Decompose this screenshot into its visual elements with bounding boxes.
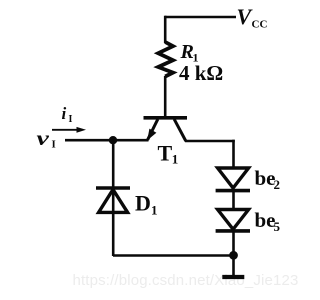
transistor T1 collector leg <box>174 119 186 141</box>
svg-text:1: 1 <box>151 203 158 218</box>
wire input horizontal <box>65 139 149 142</box>
diode D1 triangle <box>99 190 128 213</box>
diode be5 cathode bar <box>216 229 250 233</box>
current arrow iI <box>52 129 79 131</box>
wire bottom horizontal <box>113 254 234 257</box>
svg-text:T: T <box>158 140 173 165</box>
wire be2 to be5 <box>232 190 235 210</box>
wire VCC top horizontal <box>165 16 236 19</box>
svg-text:https://blog.csdn.net/Xiao_Jie: https://blog.csdn.net/Xiao_Jie123 <box>73 272 299 289</box>
transistor T1 emitter arrowhead <box>147 129 156 141</box>
transistor T1 base bar <box>144 116 188 120</box>
resistor R1 zigzag <box>158 42 173 77</box>
svg-text:2: 2 <box>274 177 281 192</box>
svg-text:D: D <box>135 190 151 215</box>
svg-text:i: i <box>62 104 67 123</box>
svg-text:be: be <box>255 166 276 190</box>
ground bar <box>222 275 244 279</box>
transistor T1 emitter leg <box>148 119 158 140</box>
diode D1 cathode bar <box>96 186 130 190</box>
wire node down to D1 <box>112 140 115 256</box>
svg-text:CC: CC <box>252 19 268 31</box>
wire R1 bottom to T1 base bar <box>164 76 167 118</box>
wire right vertical down to be2 <box>232 140 235 168</box>
node bottom junction dot <box>229 251 238 260</box>
wire VCC corner down to R1 top <box>164 16 167 43</box>
node input junction dot <box>109 136 117 144</box>
svg-text:1: 1 <box>172 152 179 167</box>
svg-text:I: I <box>69 114 73 125</box>
diode be5 triangle <box>218 210 249 230</box>
diode be2 cathode bar <box>216 189 250 193</box>
wire be5 down to ground <box>232 231 235 277</box>
svg-text:5: 5 <box>274 219 281 234</box>
wire collector to right <box>185 140 235 143</box>
diode be2 triangle <box>218 168 249 188</box>
svg-text:I: I <box>52 139 56 151</box>
svg-text:be: be <box>255 208 276 232</box>
svg-text:4 kΩ: 4 kΩ <box>179 61 223 85</box>
svg-text:v: v <box>37 127 51 150</box>
